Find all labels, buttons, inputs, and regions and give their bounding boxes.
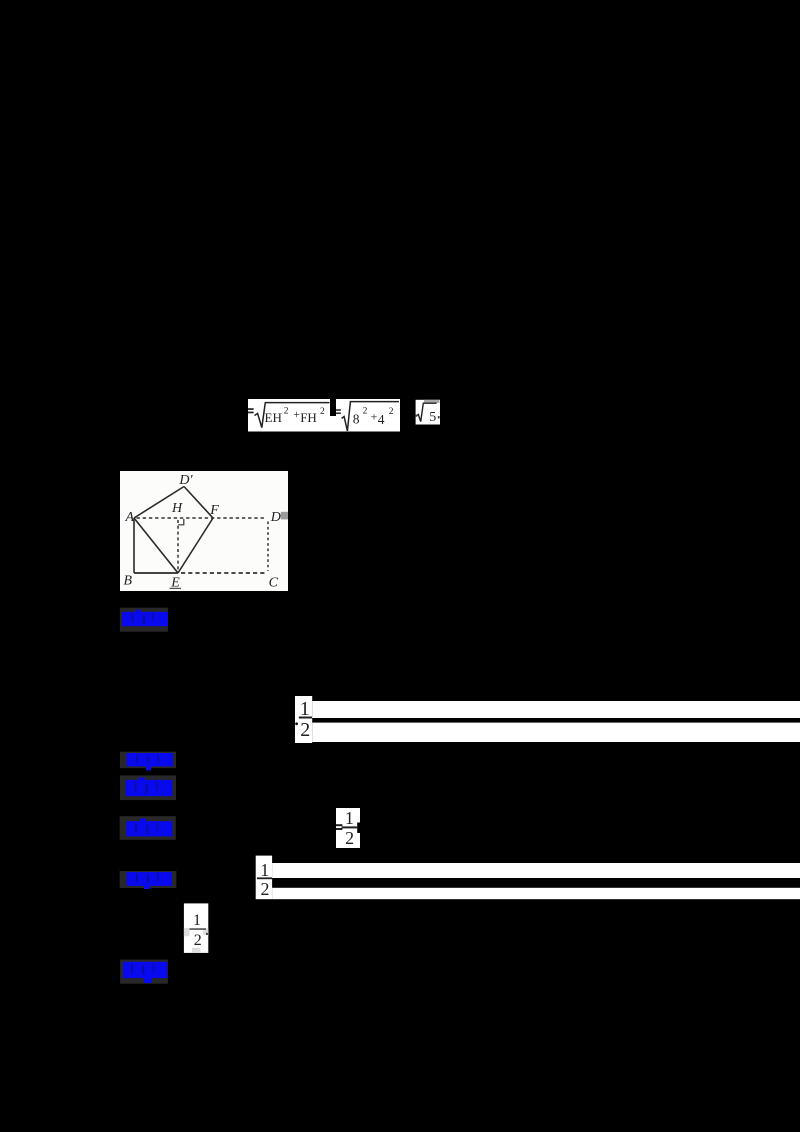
svg-text:5: 5 [429,410,436,425]
node label B [124,574,133,589]
wire dashed line E to C [181,572,266,574]
solid line D' to F [184,487,213,519]
svg-text:2: 2 [284,407,289,417]
blue label blob 3 dark backing [120,775,176,800]
wire dashed line E to H vertical [177,520,179,572]
figure gray resize handle near D [281,512,288,520]
blue label blob 3 [126,778,173,797]
blue label blob 5 [127,872,172,889]
svg-text:2: 2 [194,932,202,949]
svg-text:EH: EH [265,410,282,425]
svg-text:4: 4 [378,412,385,427]
node label D' [178,473,193,488]
svg-text:+: + [293,407,300,421]
equation EQ1 equals sign [248,408,254,413]
blue label blob 6 dark backing [120,960,168,984]
svg-text:2: 2 [300,719,310,741]
fraction G1 bar [299,717,312,719]
wire dashed line A to D [137,517,266,519]
svg-text:2: 2 [363,407,368,417]
solid line A to D' [134,487,184,519]
blue label blob 1 dark backing [120,608,168,632]
svg-text:1: 1 [345,808,354,828]
node label D [270,510,281,525]
wire dashed line D to C vertical [267,522,269,572]
solid line A to E diagonal [134,518,178,573]
fraction G2 denominator 2 [261,879,270,899]
svg-text:H: H [171,501,183,516]
standalone fraction denominator 2 [194,932,202,949]
multiplication dot left of G1 [295,722,298,725]
blue label blob 2 [127,753,173,771]
standalone fraction gray patches [184,928,208,953]
equation EQ3 radical sign [416,403,436,421]
svg-text:1: 1 [193,912,201,929]
equation =1/2 image box [336,808,360,848]
svg-text:D: D [270,510,281,525]
equation =1/2 bar [342,826,358,828]
right angle mark at H [178,519,184,525]
equation =1/2 denominator 2 [345,828,354,848]
equation EQ3 digit 5 [429,410,436,425]
equation EQ3 left tick [416,415,440,419]
solid line A to B [133,518,135,573]
solid line B to E [134,572,178,574]
equation EQ1 radical sign [255,403,330,428]
blue label blob 5 dark backing [120,871,177,888]
blue label blob 1 [122,610,168,627]
long white bar row1 lower [312,723,800,742]
svg-text:F: F [209,503,219,518]
fraction G1 numerator 1 [300,698,310,720]
fraction 1/2 image G2 white box [256,856,272,900]
blue label blob 4 dark backing [120,816,176,840]
blue label blob 6 [123,962,167,983]
node label A [125,510,135,525]
equation EQ2 text 8^2+4^2 [353,407,394,428]
equation EQ1 text EH^2+FH^2 [265,407,326,426]
equation EQ2 radical sign [342,402,399,431]
node label F [209,503,219,518]
standalone fraction numerator 1 [193,912,201,929]
svg-text:B: B [124,574,133,589]
equation EQ2 equals sign [336,409,341,414]
svg-text:2: 2 [320,407,325,417]
equation image EQ2 white background [336,399,400,432]
equation EQ3 gray selection strip [424,400,440,403]
equation =1/2 numerator 1 [345,808,354,828]
standalone fraction bar [190,928,207,930]
long white bar row1 upper [312,701,800,718]
equation image EQ3 sqrt5 white background [416,400,440,425]
node label H [171,501,183,516]
solid line F to E [178,518,213,573]
equation =1/2 equals sign [336,824,342,830]
svg-text:1: 1 [260,860,269,880]
blue label blob 2 dark backing [120,752,176,768]
standalone fraction right tick [206,933,208,935]
fraction G1 denominator 2 [300,719,310,741]
svg-text:FH: FH [300,410,317,425]
blue label blob 4 [126,818,172,836]
node label E [170,576,182,591]
svg-text:2: 2 [261,879,270,899]
svg-text:+: + [371,410,378,424]
long white bar row2 lower [272,888,800,899]
svg-text:D′: D′ [178,473,193,488]
node label C [269,576,279,591]
svg-text:8: 8 [353,412,360,427]
fraction 1/2 image G1 white box [295,696,312,743]
fraction G2 bar [257,877,272,879]
standalone fraction 1/2 white box [184,903,208,953]
equation =1/2 black caret notch [357,823,360,834]
long white bar row2 upper [272,863,800,878]
geometry figure white background [120,471,288,591]
svg-text:A: A [125,510,135,525]
svg-text:2: 2 [345,828,354,848]
svg-text:2: 2 [389,407,394,417]
equation image EQ1 white background [248,399,336,432]
svg-text:C: C [269,576,279,591]
fraction G2 numerator 1 [260,860,269,880]
